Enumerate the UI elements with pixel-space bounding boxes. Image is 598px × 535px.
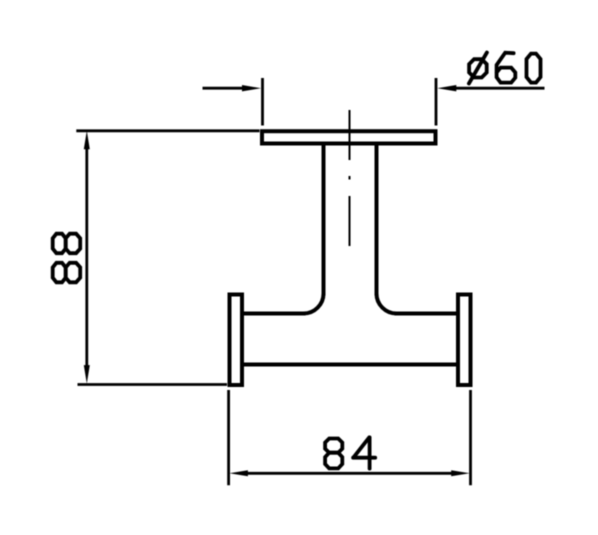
- dim84 dimension line: [246, 472, 453, 475]
- arrowhead dim88 top (points up): [84, 131, 90, 150]
- label dia60 glyph 0: [527, 54, 541, 83]
- right end cap: [458, 295, 471, 386]
- fillet right: [377, 294, 397, 314]
- centerline dash 1: [349, 110, 351, 160]
- stem right wire: [375, 145, 379, 294]
- dia60 leader line left: [203, 87, 247, 90]
- centerline dash 2: [349, 196, 351, 246]
- arrowhead dim88 bottom (points down): [84, 365, 90, 384]
- dia60 leader line right: [452, 87, 545, 90]
- fillet left: [304, 294, 324, 314]
- dia60 extension line left: [261, 78, 264, 126]
- dim88 extension line top: [76, 129, 259, 132]
- label 88 (rotated) glyph 8 lower: [53, 263, 80, 283]
- dim88 extension line bottom: [78, 383, 228, 386]
- dia60 extension line right: [435, 78, 438, 126]
- arrowhead dia60 right (points left): [437, 85, 456, 91]
- dim84 extension line right: [469, 390, 472, 485]
- label dia60 glyph diameter-symbol: [469, 53, 487, 84]
- label 84 glyph 8: [325, 439, 342, 469]
- label 88 (rotated) glyph 8 upper: [53, 234, 80, 254]
- bar top line left segment: [242, 312, 304, 316]
- dim84 extension line left: [227, 390, 230, 485]
- label dia60 glyph 6: [497, 53, 516, 83]
- arrowhead dia60 left (points right): [242, 85, 261, 91]
- stem left wire: [322, 145, 326, 294]
- label 84 glyph 4: [353, 437, 375, 468]
- arrowhead dim84 left (points left): [229, 470, 248, 476]
- flange plate (top mounting plate): [262, 131, 436, 143]
- bar top line right segment: [397, 312, 459, 316]
- arrowhead dim84 right (points right): [451, 470, 470, 476]
- left end cap: [230, 295, 243, 386]
- dim88 dimension line: [85, 146, 88, 368]
- bar bottom line: [242, 363, 458, 367]
- centerline dot: [349, 176, 351, 180]
